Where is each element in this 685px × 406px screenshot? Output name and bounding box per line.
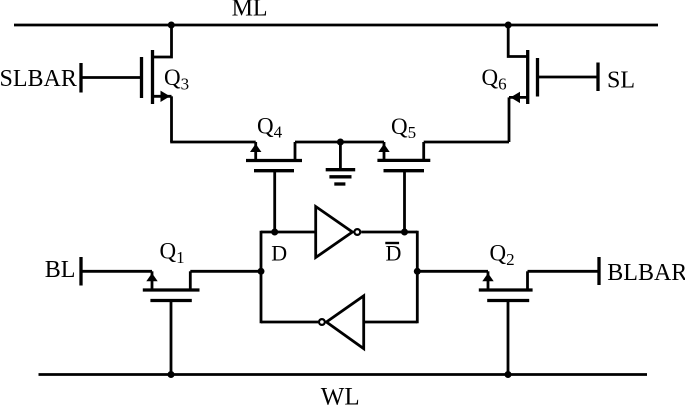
latch: top wire right segment [361,231,417,234]
svg-text:Q4: Q4 [257,114,283,142]
wire: node Dbar to Q2 source [417,270,488,273]
wire: Q1 drain to node D [190,270,261,273]
node D junction [258,268,265,275]
arrow on Q5 source (points up) [378,144,389,152]
wire ML (match line) [14,24,658,27]
wire WL (word line) [39,373,648,376]
wire: Q3 source down to mid rail [170,96,173,142]
arrow on Q4 source (points up) [250,144,261,152]
terminal SLBAR [79,63,82,93]
node: Q4 gate junction on top wire [271,229,278,236]
terminal SL [596,63,599,92]
transistor Q6 [528,50,538,104]
node: ML / Q3 drain junction [168,22,175,29]
svg-text:BL: BL [45,257,76,283]
svg-text:Q3: Q3 [164,65,189,94]
svg-text:ML: ML [232,0,268,21]
latch: bottom wire right segment [364,321,418,324]
wire: Q2 gate to WL [507,301,510,375]
wire: Q6 source lead [509,96,528,99]
svg-text:WL: WL [321,383,360,406]
wire: SLBAR to Q3 gate [82,76,140,79]
transistor Q4 [246,142,302,171]
latch: left vertical wire [260,231,263,324]
wire: Q6 drain to ML [508,26,528,57]
latch: bottom wire left segment [261,321,318,324]
wire: Q3 source lead [153,95,172,98]
transistor Q1 [143,271,200,300]
svg-text:Q5: Q5 [391,114,416,142]
wire: mid rail right segment (Q5 drain to Q6 source) [424,141,509,144]
wire: Q2 drain to BLBAR [528,270,599,273]
node: ML / Q6 drain junction [505,22,512,29]
node: Q1 gate / WL junction [168,371,175,378]
wire: Q3 drain to ML [153,26,172,57]
svg-text:SLBAR: SLBAR [0,66,77,92]
wire: Q6 gate to SL [539,76,597,79]
overline of Dbar [385,242,399,244]
node Dbar junction [414,268,421,275]
svg-text:Q6: Q6 [482,65,507,94]
svg-text:SL: SL [607,67,635,93]
latch: top wire left segment [261,231,316,234]
latch: right vertical wire [416,231,419,324]
wire: mid rail centre segment (Q4 drain to Q5 source) [295,141,384,144]
svg-text:BLBAR: BLBAR [607,260,685,286]
node: ground junction [337,139,344,146]
arrow on Q1 source (points up) [146,273,157,281]
wire: mid rail left segment (Q3 source to Q4 source) [170,141,256,144]
terminal BLBAR [597,257,600,285]
svg-text:D: D [271,241,287,266]
wire: Q1 gate to WL [170,301,173,375]
transistor Q3 [142,50,153,104]
transistor Q5 [377,142,430,171]
arrow on Q2 source (points up) [482,273,493,281]
inverter INV2 (bottom, points left) [319,296,364,349]
node: Q2 gate / WL junction [505,371,512,378]
svg-text:Q2: Q2 [490,241,515,270]
arrow on Q3 source (points away from channel) [161,91,171,102]
ground [326,142,356,184]
wire: Q6 source down to mid rail [508,97,511,142]
svg-text:Q1: Q1 [160,239,185,268]
inverter INV1 (top, points right) [316,207,360,258]
wire: BL to Q1 source [82,270,152,273]
svg-text:D: D [386,241,402,266]
transistor Q2 [479,271,533,300]
wire: Q5 gate to node Dbar [403,171,406,232]
node: Q5 gate junction on top wire [401,229,408,236]
terminal BL [79,257,82,286]
wire: Q4 gate to node D [273,171,276,232]
arrow on Q6 source (points away from channel) [511,92,521,103]
